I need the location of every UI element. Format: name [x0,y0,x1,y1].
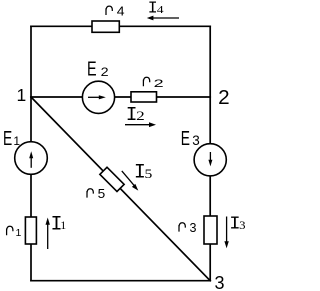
label node 2 [218,87,230,109]
current arrow I1 [47,223,49,249]
label I1 [51,213,67,236]
current arrow I5 [122,171,135,186]
arrowhead I1 [46,218,50,225]
label r1 [7,226,22,239]
label E1 [3,128,20,150]
arrow inside E1 (up) [30,156,32,168]
svg-text:1: 1 [60,218,66,232]
wire diagonal (node 1 to node 3) [31,97,210,281]
resistor r3 [204,216,217,244]
resistor r4 [92,21,119,32]
svg-text:1: 1 [13,134,20,148]
resistor r2 [131,92,157,102]
source E3 [194,144,226,176]
svg-text:1: 1 [17,85,27,105]
arrowhead I5 [132,184,138,191]
current arrow I4 [152,17,179,19]
source E1 [15,142,48,175]
resistor r5 [100,167,124,191]
svg-text:3: 3 [215,273,225,291]
arrowhead I3 [224,241,228,248]
label r3 [179,221,197,235]
label r2 [143,77,163,90]
label node 3 [215,273,225,291]
wire left (top-left corner down to bottom-left corner) [30,26,32,280]
svg-text:3: 3 [192,133,200,148]
label I5 [134,162,152,185]
arrowhead I4 [147,16,154,21]
source E2 [82,81,114,113]
label I3 [229,213,245,235]
label r4 [106,5,125,19]
wire middle (node 1 to node 2) [31,96,210,98]
svg-text:4: 4 [117,5,125,19]
svg-text:E: E [87,57,97,80]
svg-text:E: E [181,128,190,150]
arrowhead I2 [149,122,156,127]
svg-text:3: 3 [239,218,245,232]
label I4 [148,0,164,18]
arrowhead E3 [208,160,212,167]
svg-text:3: 3 [190,221,197,235]
arrow inside E2 (right) [88,96,100,98]
arrow inside E3 (down) [209,152,211,161]
wire top (node1 corner to node2 corner) [31,25,210,27]
svg-text:5: 5 [98,187,106,201]
label node 1 [17,85,27,105]
label E2 [87,57,109,80]
resistor r1 [25,217,36,244]
svg-text:E: E [3,128,12,150]
svg-text:2: 2 [101,67,109,79]
label E3 [181,128,200,150]
svg-text:4: 4 [157,4,164,16]
current arrow I2 [125,124,150,126]
label I2 [126,104,145,126]
svg-text:5: 5 [145,167,153,181]
svg-text:2: 2 [136,109,145,123]
arrowhead E2 [99,95,106,99]
label r5 [87,187,105,201]
svg-text:2: 2 [154,78,164,90]
svg-text:1: 1 [16,227,22,239]
svg-text:2: 2 [218,87,230,109]
arrowhead E1 [29,151,33,158]
wire bottom (bottom-left corner to node 3) [31,280,210,282]
wire right (top-right corner down to node 3) [209,26,211,280]
current arrow I3 [226,217,228,243]
